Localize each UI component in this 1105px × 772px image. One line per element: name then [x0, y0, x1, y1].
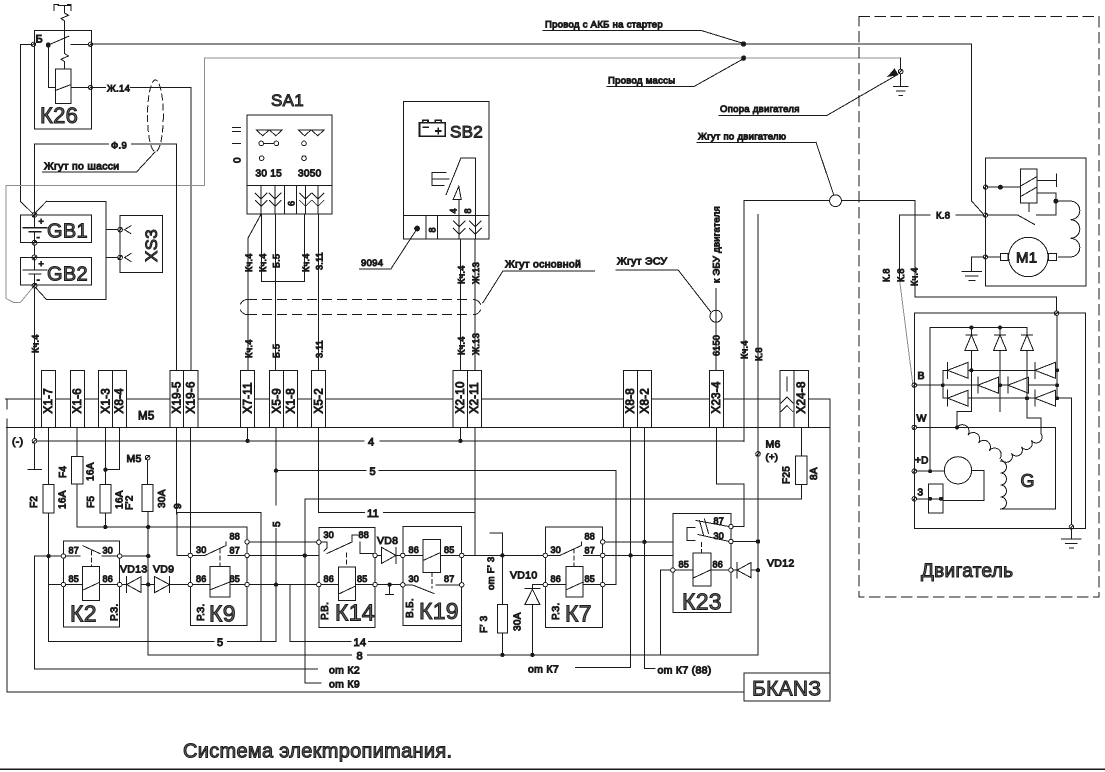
- starter switch blade: [1018, 215, 1035, 224]
- stator coil A: [957, 425, 1001, 459]
- wire от К7 column: [576, 428, 631, 668]
- SB2 case pin dot: [415, 226, 420, 231]
- wire 30 to VD column: [122, 555, 148, 557]
- svg-text:86: 86: [551, 574, 562, 584]
- svg-text:X19-6: X19-6: [186, 381, 198, 413]
- wire M5 to fuse: [147, 460, 149, 484]
- svg-text:Опора двигателя: Опора двигателя: [720, 104, 800, 115]
- diode VD9: [150, 577, 188, 593]
- wire 85 row right: [377, 584, 400, 586]
- generator output pin: [1054, 311, 1058, 315]
- svg-text:GB2: GB2: [47, 264, 88, 286]
- svg-text:30: 30: [409, 574, 420, 584]
- K9 blade: [193, 542, 246, 556]
- field coil M1: [1058, 201, 1080, 257]
- svg-text:3: 3: [918, 488, 924, 499]
- svg-text:85: 85: [230, 574, 241, 584]
- svg-text:К.8: К.8: [896, 268, 906, 282]
- connector X23-4: [709, 371, 723, 428]
- wire X8-4 join: [105, 428, 119, 470]
- svg-text:5: 5: [370, 466, 376, 478]
- K2 pin 86: [118, 582, 122, 586]
- K7 coil wires: [548, 584, 601, 586]
- SB2 top bar: [461, 158, 476, 215]
- svg-text:VD8: VD8: [377, 535, 398, 547]
- wire Ф.9: [35, 144, 177, 371]
- wire: [1037, 203, 1056, 215]
- svg-text:К7: К7: [565, 601, 592, 627]
- K23 coil wires: [675, 569, 729, 571]
- K7 pin 30: [543, 553, 547, 557]
- svg-text:X8-4: X8-4: [114, 388, 126, 414]
- wire: [988, 186, 999, 188]
- svg-text:К19: К19: [419, 598, 459, 624]
- wire F5 down: [104, 513, 106, 527]
- diode VD8: [377, 547, 400, 563]
- wire К.8 solenoid: [900, 215, 984, 280]
- wire К.8 generator B: [900, 280, 913, 383]
- stator bottom: [1001, 427, 1056, 509]
- svg-text:Жгут основной: Жгут основной: [505, 259, 581, 271]
- connector X7-11: [241, 371, 255, 428]
- pin +D: [912, 469, 916, 473]
- wire: [988, 256, 1001, 258]
- svg-text:G: G: [1021, 471, 1035, 491]
- M1 brush right: [1049, 254, 1057, 261]
- battery GB1 box: [20, 215, 91, 243]
- wire X23-4 to K23: [717, 428, 744, 527]
- K2 coil link: [90, 551, 92, 567]
- svg-text:87: 87: [230, 546, 241, 556]
- wire 14: [290, 585, 462, 642]
- battery wire end bar: [28, 443, 42, 470]
- K2 blade: [66, 546, 118, 556]
- junction dots: [46, 439, 760, 657]
- K14 blade: [321, 535, 373, 554]
- connector X2-11: [467, 371, 481, 428]
- wire jumper: [262, 214, 305, 282]
- svg-text:+: +: [39, 259, 45, 269]
- SA1 contact triangles: [256, 130, 324, 136]
- K26 left pin: [31, 42, 35, 46]
- svg-text:30: 30: [196, 545, 207, 555]
- svg-text:Р.З.: Р.З.: [551, 602, 562, 620]
- relay K23 box: [673, 514, 731, 613]
- relay K2 box: [63, 541, 119, 627]
- K14 coil link: [345, 553, 347, 567]
- K19 coil wires: [405, 554, 460, 556]
- SA1 position I: [233, 143, 241, 145]
- label Провод массы: [607, 59, 743, 86]
- svg-text:Кч.4: Кч.4: [457, 336, 467, 355]
- connector X1-3: [99, 371, 113, 428]
- svg-text:X23-4: X23-4: [711, 381, 723, 413]
- rectifier diode row2 left: [978, 377, 999, 393]
- svg-text:3.11: 3.11: [315, 252, 325, 270]
- svg-text:Кч.4: Кч.4: [258, 253, 268, 272]
- K23 pin 86: [729, 568, 733, 572]
- svg-text:F5: F5: [86, 496, 97, 508]
- K26 switch contact: [48, 36, 69, 45]
- svg-text:X24-8: X24-8: [796, 381, 808, 413]
- K14 pin 88: [373, 553, 377, 557]
- K7 coil link: [573, 549, 575, 566]
- aux diode 2: [994, 328, 1007, 351]
- connector XS3 box: [120, 216, 162, 273]
- fuse F25: [795, 456, 807, 485]
- svg-text:B: B: [918, 370, 925, 382]
- K19 pin 86: [401, 553, 405, 557]
- node: [1054, 199, 1058, 203]
- fuse F'3: [497, 605, 507, 634]
- wire Б.5: [274, 214, 276, 371]
- K26 lower pin: [88, 85, 92, 89]
- svg-text:8: 8: [357, 651, 363, 663]
- svg-text:8A: 8A: [809, 467, 820, 480]
- motor M1: [1009, 237, 1048, 276]
- label Жгут по шасси: [43, 152, 156, 173]
- SA1 strip dividers: [285, 186, 297, 215]
- svg-text:X2-11: X2-11: [469, 382, 481, 413]
- svg-text:M5: M5: [138, 411, 155, 423]
- svg-text:30: 30: [324, 530, 335, 540]
- wire to starter top: [93, 43, 742, 45]
- engine dashed boundary: [859, 17, 1099, 598]
- svg-text:Ж.13: Ж.13: [471, 262, 481, 284]
- svg-text:Р.З.: Р.З.: [110, 603, 121, 621]
- svg-text:30 15: 30 15: [256, 169, 283, 180]
- relay K9 box: [190, 527, 247, 625]
- relay K26 box: [35, 30, 92, 129]
- SA1 arrow pin 1: [255, 186, 267, 215]
- SA1 terminal strip: [247, 186, 332, 215]
- GB2 bottom pin: [32, 283, 37, 288]
- ground tick: [386, 587, 394, 595]
- wire X5-2 / 11: [318, 428, 320, 513]
- wire F4 F5 30A join: [77, 484, 190, 527]
- aux diode 1: [965, 328, 978, 351]
- svg-text:к ЭБУ двигателя: к ЭБУ двигателя: [712, 206, 723, 283]
- svg-text:86: 86: [713, 560, 724, 570]
- K2 coil: [83, 567, 100, 601]
- fuse F4: [72, 456, 83, 484]
- wire 9 / X19-5: [176, 428, 178, 515]
- svg-text:Р.В.: Р.В.: [320, 602, 331, 620]
- stator coil C: [1001, 461, 1007, 509]
- SB2 battery icon: [420, 120, 446, 136]
- row3 rail: [943, 397, 1057, 399]
- svg-text:Жгут ЭСУ: Жгут ЭСУ: [617, 256, 667, 268]
- label Жгут ЭСУ: [616, 256, 711, 312]
- wire Кч.4 to X2-10: [459, 239, 461, 371]
- svg-text:om К2: om К2: [329, 664, 360, 676]
- svg-text:X1-3: X1-3: [100, 388, 112, 414]
- svg-text:Ж.14: Ж.14: [107, 84, 130, 95]
- connector X5-9: [270, 371, 284, 428]
- pin W: [912, 425, 916, 429]
- svg-text:БКАNЗ: БКАNЗ: [752, 678, 821, 701]
- pin 3: [912, 497, 916, 501]
- wire 3 row: [917, 498, 942, 500]
- wire 30A down: [147, 511, 149, 655]
- svg-text:5: 5: [217, 637, 223, 649]
- battery GB2 box: [20, 258, 91, 286]
- connector X1-7: [41, 371, 55, 428]
- svg-text:Двигатель: Двигатель: [921, 561, 1013, 582]
- K26 right pin: [88, 42, 92, 46]
- K19 blade: [405, 585, 460, 594]
- svg-text:К.8: К.8: [936, 211, 950, 222]
- ground wire (mass): [6, 58, 901, 302]
- svg-text:9094: 9094: [361, 258, 383, 269]
- wire Ж.13 to X2-11: [474, 239, 476, 555]
- wire 5 bottom row: [49, 640, 276, 642]
- K19 pin 87: [460, 583, 464, 587]
- svg-text:Кч.4: Кч.4: [31, 334, 41, 353]
- K23 switch: [687, 519, 729, 541]
- wire 87 row: [605, 554, 673, 556]
- svg-text:GB1: GB1: [47, 221, 88, 243]
- svg-text:X1-8: X1-8: [285, 388, 297, 414]
- wire pin 4: [458, 199, 460, 215]
- K9 coil: [210, 567, 230, 597]
- svg-text:X1-6: X1-6: [72, 388, 84, 414]
- XS3 pin 1: [118, 226, 131, 234]
- wire: [1002, 186, 1020, 188]
- svg-text:4: 4: [368, 437, 374, 449]
- connector X8-8: [623, 371, 637, 428]
- harness ring on engine wire: [830, 195, 842, 207]
- svg-text:VD13: VD13: [120, 564, 147, 576]
- wire от К7 88 column: [644, 428, 655, 669]
- label 9094: [360, 231, 416, 269]
- svg-text:К26: К26: [40, 103, 78, 128]
- generator ground pin: [1069, 525, 1073, 529]
- svg-text:X5-9: X5-9: [272, 388, 284, 414]
- svg-text:16A: 16A: [58, 490, 69, 509]
- K23 pin 87: [729, 524, 733, 528]
- K19 coil: [423, 539, 441, 572]
- wire B row: [917, 384, 1058, 386]
- svg-text:30A: 30A: [157, 489, 168, 508]
- wire +D: [917, 470, 945, 472]
- solenoid contact bar: [1037, 174, 1056, 186]
- GB1 plates: [23, 215, 46, 243]
- wire to ground: [971, 257, 983, 270]
- GB1 top pin: [32, 213, 37, 218]
- wire X7-11 to 4: [247, 428, 249, 441]
- K2 coil wires: [66, 584, 118, 586]
- wire K23-85 loop: [660, 570, 758, 655]
- svg-text:88: 88: [359, 530, 370, 540]
- wire Кч.4 to БКАНЗ: [743, 201, 745, 442]
- svg-text:К.8: К.8: [754, 347, 764, 361]
- generator box: [914, 313, 1085, 528]
- switch SA1 body: [247, 115, 332, 185]
- wire 30 to K.8: [733, 541, 758, 543]
- svg-text:88: 88: [585, 532, 596, 542]
- wire GB to XS3 pin1: [106, 229, 118, 231]
- svg-text:X19-5: X19-5: [172, 381, 184, 413]
- svg-text:86: 86: [103, 574, 114, 584]
- svg-text:В.Б.: В.Б.: [405, 598, 416, 618]
- node mass wire: [741, 56, 745, 60]
- svg-text:6150: 6150: [712, 335, 722, 356]
- svg-text:9: 9: [173, 503, 184, 509]
- connector X19-6: [184, 371, 198, 428]
- wire X5-9 / 5 column: [275, 428, 277, 642]
- svg-text:F’2: F’2: [125, 495, 136, 510]
- svg-text:87: 87: [585, 546, 596, 556]
- svg-text:87: 87: [69, 546, 80, 556]
- svg-text:X8-2: X8-2: [639, 388, 651, 414]
- GB1 bottom pin: [32, 240, 37, 245]
- wire 88 row: [249, 541, 316, 543]
- chassis harness ring: [148, 80, 164, 152]
- svg-text:16A: 16A: [86, 462, 97, 481]
- ground: [894, 74, 908, 96]
- svg-text:Кч.4: Кч.4: [301, 253, 311, 272]
- K23 coil link: [700, 543, 702, 553]
- svg-text:XS3: XS3: [142, 229, 161, 262]
- wire GB to XS3 pin2: [106, 257, 118, 259]
- K26 internal fuse: [61, 30, 69, 69]
- K14 coil: [339, 567, 356, 600]
- wire to starter solenoid: [746, 44, 984, 215]
- SB2 blade: [446, 158, 461, 194]
- svg-text:Б: Б: [36, 34, 44, 46]
- SA1 arrow pin 3: [300, 186, 312, 215]
- svg-text:30A: 30A: [513, 612, 524, 631]
- GB2 plates: [23, 258, 46, 286]
- wire 87 row: [249, 554, 318, 556]
- wire coil left: [48, 45, 55, 88]
- frame bottom rule: [0, 768, 1105, 770]
- K9 pin 85: [245, 582, 249, 586]
- wire 6150: [715, 289, 717, 372]
- svg-text:X7-11: X7-11: [243, 382, 255, 413]
- svg-text:om К7 (88): om К7 (88): [658, 664, 712, 676]
- battery module outline: [35, 201, 106, 299]
- wire 5: [276, 470, 616, 472]
- svg-text:4: 4: [449, 208, 459, 213]
- right bridge rail: [1056, 315, 1058, 398]
- K14 coil wires: [321, 584, 373, 586]
- svg-text:F2: F2: [29, 496, 40, 508]
- wire X1-3 to F5: [104, 428, 106, 485]
- SA1 position II: [233, 127, 241, 131]
- svg-text:(-): (-): [12, 436, 23, 448]
- K23 pin 30: [729, 539, 733, 543]
- aux diode 3: [1021, 328, 1034, 351]
- fuse 30A: [142, 484, 153, 511]
- label Жгут по двигателю: [697, 132, 834, 196]
- rectifier diode row3 left: [948, 390, 969, 406]
- bridge column 1: [970, 351, 972, 412]
- rectifier diode row2 right: [1008, 377, 1029, 393]
- K7 blade: [548, 542, 601, 556]
- fusible link symbol at battery feed: [54, 4, 71, 30]
- wire to ground pin: [1057, 398, 1071, 525]
- connector X19-5: [170, 371, 184, 428]
- svg-text:85: 85: [585, 574, 596, 584]
- K19 pin 30: [401, 583, 405, 587]
- K7 pin 87: [601, 553, 605, 557]
- svg-text:M6: M6: [766, 439, 781, 451]
- button SB2 box: [403, 102, 489, 240]
- K9 coil link: [219, 549, 221, 567]
- wire от К2: [34, 556, 317, 669]
- K19 coil stem: [431, 572, 433, 588]
- wire 8: [148, 654, 758, 656]
- rectifier diode row3 right: [1035, 390, 1056, 406]
- БКАНЗ label box: [744, 673, 830, 701]
- svg-text:Кч.4: Кч.4: [244, 253, 254, 272]
- ground: [962, 271, 982, 280]
- svg-text:3050: 3050: [298, 169, 322, 180]
- svg-text:SB2: SB2: [450, 123, 483, 142]
- XS3 pin 2: [118, 254, 131, 262]
- svg-text:88: 88: [230, 532, 241, 542]
- svg-text:30: 30: [103, 546, 114, 556]
- svg-text:86: 86: [196, 574, 207, 584]
- svg-text:+D: +D: [915, 456, 929, 467]
- fuse F2: [43, 485, 54, 514]
- SA1 arrow pin 4: [312, 186, 324, 215]
- wire 88 row: [605, 541, 673, 543]
- wire X24-8 to F25: [800, 428, 802, 457]
- svg-text:Жгут по двигателю: Жгут по двигателю: [698, 132, 786, 143]
- svg-text:85: 85: [357, 574, 368, 584]
- starter M1 box: [986, 158, 1086, 286]
- junction dots generator: [928, 326, 1059, 501]
- wire 11 left segment: [177, 513, 261, 642]
- svg-text:om F’ 3: om F’ 3: [486, 557, 497, 590]
- wire X1-6 to F4: [76, 428, 78, 457]
- wire 86 stub: [532, 584, 543, 586]
- svg-text:Кч.4: Кч.4: [740, 340, 750, 359]
- wire jumper left: [261, 214, 263, 282]
- K7 pin 85: [601, 582, 605, 586]
- svg-text:5: 5: [272, 521, 283, 527]
- K14 pin 86: [317, 582, 321, 586]
- K9 pin 86: [188, 582, 192, 586]
- svg-text:86: 86: [324, 574, 335, 584]
- svg-text:К.8: К.8: [882, 268, 892, 282]
- relay K7 box: [545, 527, 602, 628]
- svg-text:Б.5: Б.5: [272, 254, 282, 268]
- K2 pin 30: [118, 554, 122, 558]
- svg-text:К14: К14: [335, 600, 375, 626]
- solenoid plunger stem: [1028, 203, 1030, 212]
- K26 coil: [55, 69, 71, 104]
- row1 rail: [943, 369, 1057, 371]
- svg-text:X2-10: X2-10: [455, 381, 467, 413]
- svg-text:X1-7: X1-7: [43, 388, 55, 414]
- svg-text:85: 85: [69, 574, 80, 584]
- bridge column 2: [999, 351, 1001, 412]
- diode VD13: [122, 577, 146, 593]
- connector X8-4: [112, 371, 126, 428]
- svg-text:11: 11: [367, 508, 379, 520]
- wire W row: [917, 426, 1056, 428]
- diode VD12: [733, 562, 758, 577]
- wire Ж.14: [93, 88, 191, 371]
- connector X8-2: [638, 371, 652, 428]
- relay K19 box: [403, 527, 462, 626]
- wire 85 stub: [49, 584, 62, 586]
- svg-text:85: 85: [679, 560, 690, 570]
